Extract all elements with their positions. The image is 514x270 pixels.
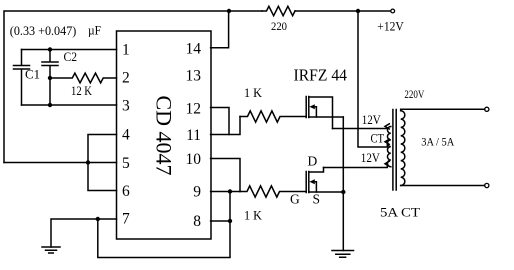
arrow CT tap: [385, 139, 389, 144]
arrow top 12V tap: [385, 124, 389, 129]
resistor R 1K lower: [240, 186, 306, 197]
svg-text:CT: CT: [371, 131, 385, 146]
wire top rail right: [295, 10, 391, 12]
wire top rail left: [4, 11, 262, 163]
resistor R 1K upper: [240, 111, 306, 122]
node pin8: [228, 219, 232, 223]
terminal +12V: [391, 9, 395, 13]
wire Q1 drain to transformer top: [333, 128, 387, 130]
svg-text:3A / 5A: 3A / 5A: [421, 135, 454, 149]
node sources junction: [341, 190, 345, 194]
ground left: [42, 247, 60, 253]
node pin14 junction: [227, 9, 231, 13]
wire pin11 to upper gate resistor: [211, 117, 240, 135]
svg-text:14: 14: [186, 41, 202, 58]
svg-text:µF: µF: [88, 23, 101, 38]
node pin7: [96, 217, 100, 221]
wire pin8 stub: [211, 220, 230, 222]
node pin9: [228, 189, 232, 193]
wire pin5 row: [4, 162, 117, 164]
svg-text:8: 8: [193, 213, 201, 230]
svg-text:7: 7: [122, 211, 130, 228]
wire pins 4-5-6 bus: [88, 135, 117, 191]
svg-text:6: 6: [122, 183, 130, 200]
wire bottom return: [98, 219, 230, 258]
op-amp U1 CD4047 box: [117, 31, 212, 239]
svg-text:12V: 12V: [362, 112, 382, 127]
resistor R 12K: [50, 73, 117, 83]
node +12V rail junction: [356, 9, 360, 13]
svg-text:D: D: [308, 154, 318, 169]
svg-text:9: 9: [193, 184, 201, 201]
wire +12V rail to CT: [358, 11, 387, 147]
svg-text:220: 220: [271, 19, 287, 33]
node C2 top: [48, 47, 52, 51]
transistor Q2 IRFZ44 lower: [305, 172, 307, 193]
svg-text:+12V: +12V: [377, 19, 404, 33]
resistor R 220: [262, 6, 295, 15]
svg-text:3: 3: [122, 98, 130, 115]
wire Q1 source down: [342, 117, 344, 192]
svg-text:5: 5: [122, 155, 130, 172]
node C2 bottom: [48, 76, 52, 80]
svg-text:220V: 220V: [404, 89, 425, 101]
transformer T1 secondary winding: [401, 111, 405, 186]
svg-text:12: 12: [186, 101, 202, 118]
svg-text:G: G: [290, 192, 300, 207]
svg-text:2: 2: [122, 70, 130, 87]
capacitor C1: [14, 50, 30, 106]
svg-text:(0.33 +0.047): (0.33 +0.047): [10, 24, 77, 38]
node bottom RC: [48, 103, 52, 107]
node pin5: [86, 160, 90, 164]
transistor Q1 IRFZ44 upper: [305, 97, 307, 118]
ground middle: [332, 251, 354, 258]
wire pin7 to ground: [51, 219, 117, 247]
svg-text:1 K: 1 K: [244, 85, 263, 100]
svg-text:11: 11: [186, 127, 201, 144]
transformer T1 primary winding: [387, 127, 390, 167]
svg-text:IRFZ 44: IRFZ 44: [294, 65, 348, 84]
svg-text:CD 4047: CD 4047: [151, 95, 176, 175]
svg-text:13: 13: [186, 68, 202, 85]
arrow bottom 12V tap: [385, 161, 389, 166]
transformer core: [393, 110, 396, 191]
svg-text:S: S: [313, 192, 321, 207]
svg-text:1 K: 1 K: [244, 207, 263, 222]
svg-text:10: 10: [186, 151, 202, 168]
svg-text:12 K: 12 K: [71, 84, 92, 98]
svg-text:C2: C2: [64, 50, 78, 64]
wire secondary top: [401, 109, 485, 111]
wire pin10 drop: [211, 159, 240, 192]
wire pin3 row: [22, 104, 117, 106]
wire pin12 to pin11: [211, 108, 229, 135]
capacitor C2: [42, 50, 58, 106]
svg-text:5A CT: 5A CT: [380, 205, 420, 220]
wire source to ground: [342, 192, 344, 251]
wire pin9 row: [211, 191, 240, 193]
terminal secondary bottom: [485, 183, 489, 187]
wire secondary bottom: [401, 185, 485, 187]
svg-text:12V: 12V: [361, 150, 381, 165]
wire pins 8-9 bus: [229, 192, 231, 222]
svg-text:C1: C1: [25, 68, 40, 82]
svg-text:4: 4: [122, 127, 130, 144]
wire Q2 drain to transformer bottom: [324, 164, 388, 168]
wire pin14 riser: [211, 11, 229, 48]
terminal secondary top: [485, 107, 489, 111]
svg-text:1: 1: [122, 42, 130, 59]
wire pin1 row: [22, 49, 117, 51]
